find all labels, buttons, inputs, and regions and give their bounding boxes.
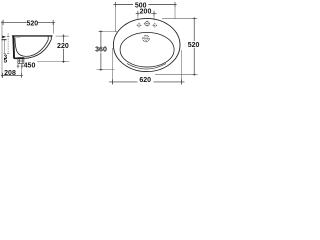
rim far-side lower edge (faint) (12, 37, 20, 39)
dim 450 (drain): extension dashes (18, 64, 22, 69)
dim 200: extension lines (137, 13, 139, 20)
svg-text:220: 220 (57, 43, 69, 50)
tap hole left (dashed) (137, 23, 142, 28)
dim 520 right: bottom extension line (155, 73, 198, 75)
dim 35: inner dim line (4, 40, 6, 54)
svg-text:360: 360 (95, 47, 107, 54)
dim 200: dimension line + ticks (136, 11, 157, 16)
dim 35 cluster: upper arrow at rim back (2, 36, 6, 39)
svg-text:520: 520 (188, 42, 200, 49)
dim 220: top extension line (56, 35, 69, 37)
basin rim (top bar of side view) (12, 35, 53, 36)
dim 520 right: top extension line (162, 18, 197, 20)
bowl bottom break arc (127, 64, 166, 70)
dim 360: dimension line + ticks (99, 30, 102, 71)
dim 35: tick at rim level (7, 35, 10, 37)
dim 450: tick marks (17, 65, 24, 68)
tap hole right (dashed) (152, 23, 157, 28)
dim 520 right: dimension line + ticks (193, 17, 196, 76)
dim 500: right extension line (174, 5, 176, 20)
dim 220: dimension line + ticks (62, 34, 65, 63)
svg-text:620: 620 (139, 77, 151, 84)
tap hole center (circle with cross) (144, 21, 150, 27)
dim 208: dimension line (1, 73, 23, 78)
svg-text:520: 520 (26, 20, 38, 27)
dim 360: top extension line (98, 31, 118, 33)
dim 35: bottom tick feet (3, 52, 5, 54)
dim 520: right extension line (53, 22, 55, 33)
dim 500: left extension line (114, 5, 116, 32)
bowl inner curve (15, 38, 48, 57)
dim 35 cluster: lower arrow bar (2, 39, 7, 40)
outer oval (basin outline) (113, 18, 180, 71)
dim 520 top: dimension line (1, 20, 55, 25)
dim 620: left extension line (111, 48, 113, 84)
svg-text:200: 200 (140, 9, 152, 16)
svg-text:5: 5 (4, 58, 8, 65)
dim 620: right extension line (180, 50, 182, 84)
dim 220: bottom extension line (37, 60, 69, 62)
drain box (18, 58, 24, 64)
svg-text:208: 208 (4, 70, 16, 77)
overflow hole (double circle with ticks) (142, 35, 149, 42)
dim 360: bottom extension line (97, 68, 115, 70)
inner oval (bowl outline) (120, 32, 174, 67)
dim 208: right extension line (21, 64, 23, 78)
wall extension line (long, from 520 dim down to 208 dim) (1, 21, 3, 78)
dim 620: dimension line + ticks (109, 79, 185, 84)
dim 500: dimension line + ticks (113, 2, 176, 7)
bowl outer curve (front) (24, 39, 51, 58)
dim 35: outer dashed dim line (7, 33, 9, 53)
front rim outer edge (50, 36, 52, 40)
bottom shell line to drain (14, 58, 24, 60)
back wall (thick) (12, 36, 15, 59)
front rim inner edge (47, 37, 49, 40)
svg-text:450: 450 (24, 62, 36, 69)
